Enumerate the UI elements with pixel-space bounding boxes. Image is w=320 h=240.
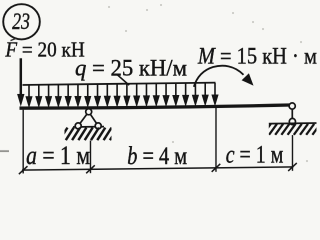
svg-text:F = 20 кН: F = 20 кН: [5, 37, 85, 61]
svg-text:c = 1 м: c = 1 м: [226, 140, 284, 169]
svg-text:a = 1 м: a = 1 м: [26, 141, 90, 170]
svg-text:b = 4 м: b = 4 м: [127, 141, 187, 170]
svg-text:23: 23: [12, 9, 30, 35]
svg-text:M = 15 кН · м: M = 15 кН · м: [197, 43, 317, 68]
svg-text:q = 25 кН/м: q = 25 кН/м: [75, 55, 187, 80]
